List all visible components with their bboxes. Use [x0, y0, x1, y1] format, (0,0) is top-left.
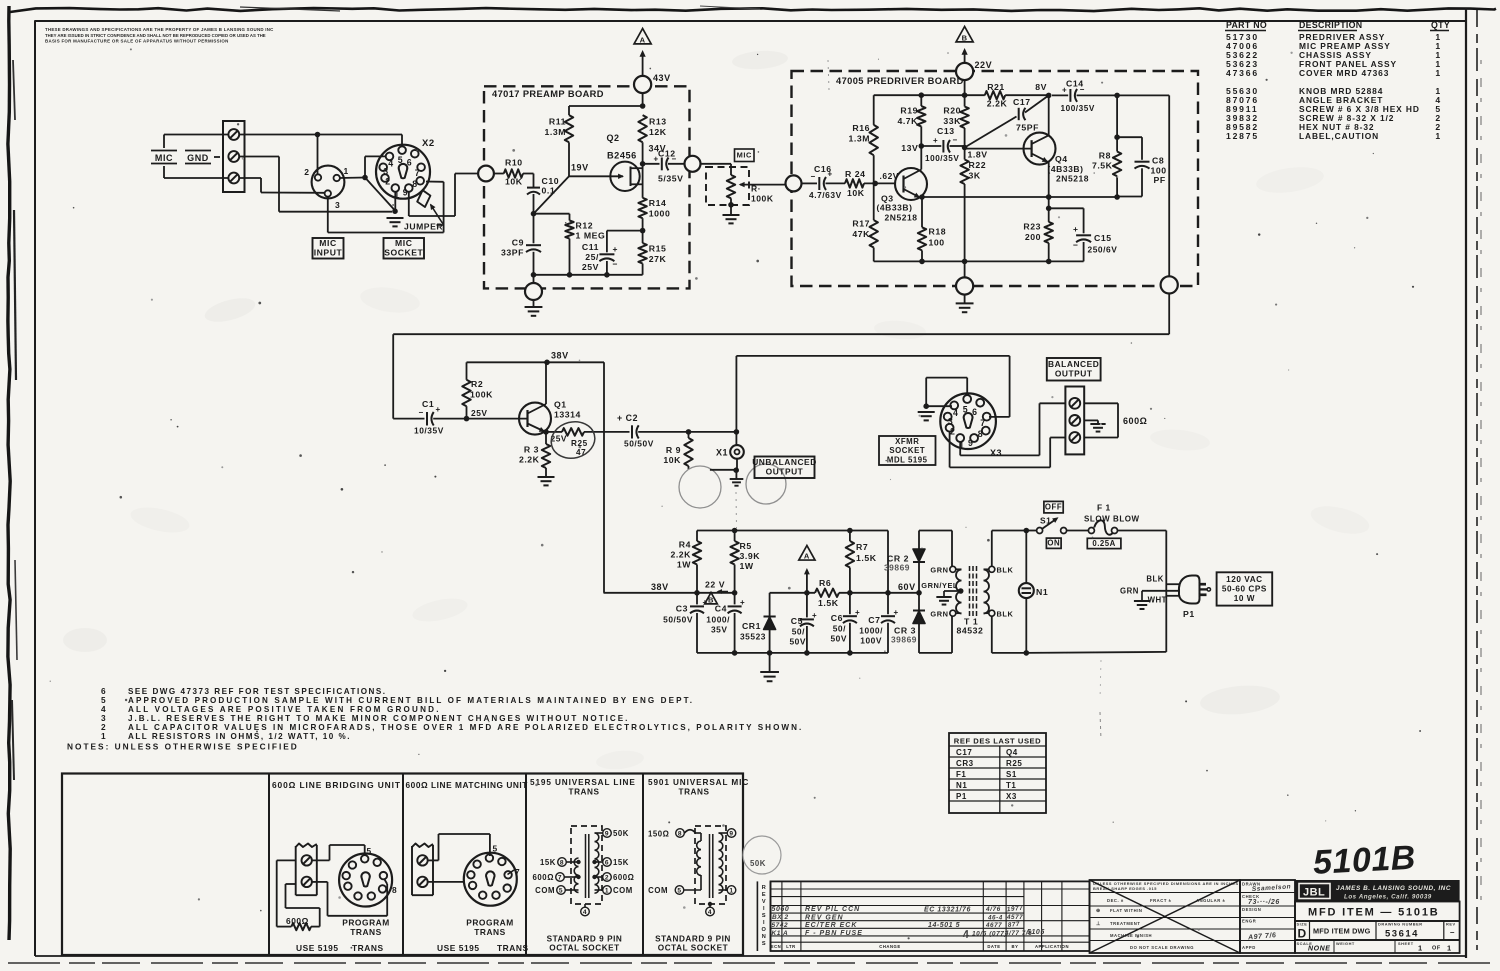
- svg-text:3.9K: 3.9K: [740, 551, 761, 561]
- svg-text:75PF: 75PF: [1016, 123, 1039, 133]
- svg-text:2N5218: 2N5218: [1056, 174, 1089, 184]
- svg-text:R4: R4: [679, 540, 691, 550]
- svg-text:+: +: [613, 244, 619, 254]
- wire GND terminal to ground bus: [239, 156, 279, 158]
- svg-text:R5: R5: [740, 541, 752, 551]
- svg-text:120 VAC: 120 VAC: [1226, 575, 1262, 584]
- svg-text:EC/TER ECK: EC/TER ECK: [805, 922, 857, 929]
- svg-text:5195 UNIVERSAL LINE: 5195 UNIVERSAL LINE: [530, 778, 636, 787]
- svg-text:C15: C15: [1094, 233, 1112, 243]
- svg-text:+: +: [828, 170, 833, 179]
- svg-text:1000: 1000: [649, 209, 671, 219]
- bridging wire screw2 to pin8: [312, 881, 328, 883]
- svg-text:1: 1: [1435, 68, 1440, 78]
- svg-text:A: A: [804, 552, 810, 561]
- capacitor C6 50/50V: [849, 593, 851, 614]
- resistor R19 4.7K: [920, 95, 922, 106]
- capacitor C12 5/35V: [643, 163, 660, 165]
- triangle flag B top: [956, 27, 973, 42]
- svg-text:R: R: [762, 885, 767, 891]
- predriver input terminal circle: [786, 175, 802, 191]
- label GND (input line): [185, 150, 211, 152]
- svg-text:–: –: [1450, 928, 1455, 937]
- svg-text:R13: R13: [649, 117, 667, 127]
- svg-text:33PF: 33PF: [501, 248, 524, 258]
- sheet frame border: [35, 21, 1466, 120]
- svg-text:TRANS: TRANS: [352, 943, 384, 953]
- svg-text:R12: R12: [576, 221, 594, 231]
- wire socket pin9 to preamp input: [408, 192, 410, 216]
- svg-text:JAMES B. LANSING SOUND, INC: JAMES B. LANSING SOUND, INC: [1336, 885, 1451, 892]
- svg-text:(4B33B): (4B33B): [1048, 164, 1084, 174]
- capacitor C7 1000/100V: [887, 531, 889, 615]
- svg-text:50/: 50/: [792, 627, 805, 637]
- svg-text:+: +: [703, 598, 708, 607]
- svg-text:47017 PREAMP BOARD: 47017 PREAMP BOARD: [492, 89, 604, 99]
- svg-text:5: 5: [677, 887, 681, 894]
- svg-text:46-4: 46-4: [987, 915, 1003, 922]
- svg-text:39869: 39869: [891, 635, 917, 645]
- capacitor C8 100PF: [1117, 136, 1142, 138]
- svg-text:250/6V: 250/6V: [1088, 245, 1118, 255]
- svg-text:10 W: 10 W: [1234, 594, 1255, 603]
- svg-text:REV PIL CCN: REV PIL CCN: [805, 906, 860, 913]
- capacitor C11 25/25V: [607, 230, 643, 232]
- svg-text:50V: 50V: [789, 637, 806, 647]
- preamp ground rail: [534, 274, 643, 276]
- svg-text:R21: R21: [987, 82, 1005, 92]
- 5195 terminal 4 shield: [584, 904, 586, 907]
- wire 43V to triangle A: [642, 52, 644, 76]
- svg-text:⊥: ⊥: [1096, 921, 1101, 927]
- svg-text:⊕: ⊕: [1096, 908, 1101, 914]
- X3 pin5 to ground: [966, 378, 968, 396]
- svg-text:E: E: [762, 892, 766, 898]
- plug P1: [1179, 576, 1200, 604]
- wire XLR pin3 loop to socket pin8: [327, 197, 329, 233]
- svg-text:NOTES: UNLESS OTHERWISE SPECI: NOTES: UNLESS OTHERWISE SPECIFIED: [67, 742, 299, 752]
- svg-text:12875: 12875: [1226, 131, 1259, 141]
- 5195 transformer dashed shield: [571, 826, 602, 904]
- predriver board dashed outline 47005: [792, 71, 1199, 286]
- ground junction mic shield: [392, 208, 398, 214]
- svg-text:MIC: MIC: [737, 151, 752, 160]
- svg-text:C11: C11: [582, 242, 599, 252]
- svg-text:600Ω: 600Ω: [286, 916, 309, 926]
- svg-text:1: 1: [1447, 944, 1452, 953]
- wire X1 node to XFMR socket pin7: [735, 356, 737, 432]
- svg-text:7: 7: [415, 168, 420, 178]
- svg-text:TRANS: TRANS: [474, 927, 506, 937]
- photocopy smudges: [202, 294, 257, 327]
- svg-text:Q2: Q2: [606, 133, 619, 143]
- 5195 terminal 6: [595, 861, 603, 863]
- label box XFMR SOCKET MDL 5195: [879, 436, 936, 465]
- svg-text:C10: C10: [542, 176, 560, 186]
- svg-text:100V: 100V: [860, 636, 882, 646]
- resistor R11 1.3M: [568, 142, 570, 176]
- svg-text:R10: R10: [505, 158, 523, 168]
- bridging 600 ohm resistor loop: [277, 859, 296, 861]
- svg-text:7: 7: [558, 874, 562, 881]
- 5195 left winding: [574, 858, 578, 892]
- svg-text:1: 1: [101, 731, 106, 741]
- svg-text:B: B: [962, 33, 968, 42]
- supply ground symbol: [769, 653, 771, 672]
- resistor R14 1000: [638, 198, 646, 218]
- svg-text:600Ω: 600Ω: [613, 873, 634, 882]
- node 1.8V: [962, 145, 968, 151]
- svg-text:ECN: ECN: [771, 944, 782, 949]
- svg-text:1: 1: [394, 190, 399, 200]
- svg-text:OFF: OFF: [1045, 503, 1062, 512]
- 38V rail to supply: [467, 361, 605, 363]
- label box ON: [1046, 538, 1061, 548]
- svg-text:4: 4: [953, 408, 958, 418]
- svg-text:R23: R23: [1023, 222, 1041, 232]
- 5901 right winding: [719, 833, 723, 893]
- ref des last used table: [949, 733, 1046, 813]
- svg-text:50/: 50/: [833, 624, 846, 634]
- 5901 terminal 1: [719, 889, 728, 891]
- drawing number row: [1295, 921, 1460, 940]
- rectifier CR3 39869: [918, 593, 920, 611]
- capacitor C14 100/35V: [1052, 94, 1068, 96]
- svg-text:I: I: [763, 906, 765, 912]
- svg-text:R25: R25: [1006, 759, 1022, 768]
- svg-text:−: −: [419, 408, 424, 417]
- svg-text:C4: C4: [715, 604, 727, 614]
- svg-text:84532: 84532: [957, 626, 984, 636]
- svg-text:R11: R11: [549, 117, 566, 127]
- svg-text:10/6 (077): 10/6 (077): [972, 931, 1007, 938]
- transistor Q3 2N5218: [895, 168, 927, 200]
- svg-text:C7: C7: [868, 615, 880, 625]
- svg-text:BLK: BLK: [997, 610, 1014, 619]
- svg-text:C5: C5: [791, 616, 803, 626]
- svg-text:R16: R16: [852, 123, 870, 133]
- svg-text:GND: GND: [187, 153, 209, 163]
- svg-text:JBL: JBL: [1303, 887, 1325, 899]
- svg-text:10K: 10K: [663, 455, 681, 465]
- svg-text:NONE: NONE: [1308, 946, 1330, 953]
- svg-text:X3: X3: [990, 448, 1002, 458]
- svg-text:200: 200: [1025, 232, 1041, 242]
- svg-text:22 V: 22 V: [705, 580, 725, 590]
- svg-text:600Ω LINE MATCHING UNIT: 600Ω LINE MATCHING UNIT: [406, 780, 528, 790]
- svg-text:R20: R20: [943, 106, 961, 116]
- svg-text:STANDARD 9 PIN: STANDARD 9 PIN: [547, 935, 623, 944]
- wire X3 pin1 to balanced terminal 1: [959, 442, 961, 456]
- svg-text:13V: 13V: [901, 143, 918, 153]
- predriver bottom rail: [874, 260, 1084, 262]
- preamp board dashed outline 47017: [484, 86, 690, 288]
- 5195 terminal 8: [567, 861, 579, 863]
- node R14/R15/C11: [640, 228, 646, 234]
- svg-text:T1: T1: [1006, 781, 1016, 790]
- svg-text:C9: C9: [512, 238, 524, 248]
- label box MIC INPUT: [313, 238, 344, 259]
- label box BALANCED OUTPUT: [1047, 358, 1101, 381]
- predriver ground symbol: [964, 295, 966, 304]
- resistor R17 47K: [873, 183, 875, 220]
- svg-text:TRANS: TRANS: [679, 788, 710, 797]
- svg-text:R2: R2: [471, 379, 483, 389]
- 5901 terminal 9: [719, 832, 728, 834]
- svg-text:BLK: BLK: [1146, 575, 1164, 584]
- resistor R9 10K: [688, 432, 690, 438]
- capacitor C5 50/50V: [806, 593, 808, 618]
- svg-text:60V: 60V: [898, 582, 916, 592]
- svg-text:I: I: [763, 920, 765, 926]
- svg-text:V: V: [762, 899, 766, 905]
- svg-text:38V: 38V: [651, 582, 669, 592]
- svg-text:8V: 8V: [1035, 82, 1047, 92]
- svg-text:8: 8: [560, 859, 564, 866]
- 5901 terminal 5 COM: [684, 889, 701, 891]
- revision application section: [1041, 881, 1043, 951]
- svg-text:ALL RESISTORS IN OHMS, 1/2 WAT: ALL RESISTORS IN OHMS, 1/2 WATT, 10 %.: [128, 732, 351, 741]
- svg-text:7: 7: [515, 867, 520, 877]
- rectifier CR2 39869: [919, 530, 952, 532]
- 600 ohm load bracket: [1084, 402, 1118, 404]
- svg-text:S1: S1: [1006, 770, 1017, 779]
- svg-text:CR3: CR3: [956, 759, 974, 768]
- svg-text:+: +: [1062, 86, 1067, 95]
- svg-text:4577: 4577: [1006, 914, 1023, 921]
- svg-text:K1 A: K1 A: [772, 930, 789, 937]
- svg-text:C8: C8: [1152, 156, 1164, 166]
- preamp output terminal circle: [685, 156, 701, 172]
- 5901 transformer dashed shield: [695, 826, 726, 904]
- resistor R8 7.5K: [1116, 95, 1118, 137]
- svg-text:R14: R14: [649, 198, 667, 208]
- revision table grid: [771, 881, 1090, 951]
- svg-text:9: 9: [968, 438, 973, 448]
- svg-text:JUMPER: JUMPER: [404, 222, 443, 232]
- svg-text:TRANS: TRANS: [350, 927, 382, 937]
- svg-text:2: 2: [304, 167, 309, 177]
- X1 ground symbol: [730, 478, 744, 480]
- capacitor C15 250/6V: [1049, 207, 1084, 209]
- svg-text:THESE DRAWINGS AND SPECIFICATI: THESE DRAWINGS AND SPECIFICATIONS ARE TH…: [45, 27, 274, 32]
- svg-text:2.2K: 2.2K: [670, 550, 691, 560]
- white-out balloon left: [679, 466, 721, 508]
- svg-text:INPUT: INPUT: [314, 248, 343, 258]
- svg-text:1.8V: 1.8V: [968, 150, 988, 160]
- svg-text:7: 7: [980, 418, 985, 428]
- svg-text:1000/: 1000/: [859, 626, 883, 636]
- label box 120 VAC 50-60 CPS 10W: [1217, 572, 1273, 605]
- svg-text:6: 6: [605, 859, 609, 866]
- svg-text:5101B: 5101B: [1312, 839, 1417, 882]
- jack X1 unbalanced output: [734, 429, 740, 435]
- tolerance box: [1090, 880, 1241, 953]
- svg-text:PF: PF: [1154, 175, 1166, 185]
- svg-text:4677: 4677: [985, 922, 1002, 929]
- resistor R3 2.2K: [545, 432, 547, 444]
- svg-text:R·: R·: [751, 184, 761, 194]
- 5195 terminal 7: [565, 876, 579, 878]
- revisions vertical strip: [756, 881, 758, 951]
- svg-text:150Ω: 150Ω: [648, 830, 669, 839]
- svg-text:8: 8: [678, 830, 682, 837]
- svg-text:REV GEN: REV GEN: [805, 915, 844, 922]
- svg-text:(4B33B): (4B33B): [877, 203, 913, 213]
- svg-text:APPLICATION: APPLICATION: [1035, 944, 1069, 949]
- label box OFF: [1044, 501, 1063, 513]
- wire terminal3 to XLR pin3: [239, 177, 261, 179]
- node 8V: [1046, 93, 1052, 99]
- svg-text:F 1: F 1: [1097, 503, 1111, 513]
- svg-text:−: −: [613, 259, 619, 269]
- svg-text:35523: 35523: [740, 632, 766, 642]
- svg-text:1: 1: [344, 166, 349, 176]
- screw terminal 3: [228, 173, 239, 184]
- drawn/check/design block: [1240, 880, 1295, 953]
- capacitor C10 0.1: [533, 174, 535, 188]
- 5195 terminal 2: [595, 876, 603, 878]
- wire R9 to X1 ground: [710, 469, 736, 471]
- svg-text:5: 5: [963, 404, 968, 414]
- svg-text:5060: 5060: [772, 906, 790, 913]
- svg-text:35V: 35V: [711, 625, 728, 635]
- svg-text:MDL 5195: MDL 5195: [887, 455, 928, 464]
- svg-text:PROGRAM: PROGRAM: [466, 918, 514, 928]
- svg-text:TRANS: TRANS: [497, 943, 529, 953]
- svg-text:10K: 10K: [505, 177, 523, 187]
- svg-text:5: 5: [493, 844, 498, 854]
- svg-text:SOCKET: SOCKET: [889, 446, 925, 455]
- 5195 terminal 5: [566, 889, 579, 891]
- zener CR1 35523: [769, 593, 771, 616]
- svg-text:PART NO: PART NO: [1226, 20, 1267, 30]
- svg-text:27K: 27K: [649, 254, 667, 264]
- svg-text:OF: OF: [1432, 946, 1441, 952]
- svg-text:25/: 25/: [585, 252, 599, 262]
- wire XLR pin1 to socket pin4 and ground: [340, 177, 365, 180]
- bridging wire screw1 to pin5: [312, 859, 330, 861]
- svg-text:A: A: [640, 35, 646, 44]
- svg-text:8: 8: [978, 429, 983, 439]
- label MIC (input line): [151, 150, 177, 152]
- svg-text:OUTPUT: OUTPUT: [1055, 368, 1093, 378]
- svg-text:73-··-/26: 73-··-/26: [1248, 899, 1280, 906]
- svg-text:2: 2: [605, 874, 609, 881]
- svg-text:FLAT WITHIN: FLAT WITHIN: [1110, 908, 1143, 913]
- plug ground: [1141, 591, 1143, 601]
- svg-text:−: −: [1080, 85, 1085, 94]
- svg-text:−: −: [672, 155, 677, 164]
- svg-text:X3: X3: [1006, 792, 1017, 801]
- svg-text:−: −: [953, 136, 958, 145]
- svg-text:4/76: 4/76: [985, 906, 1001, 913]
- svg-text:THEY ARE ISSUED IN STRICT CONF: THEY ARE ISSUED IN STRICT CONFIDENCE AND…: [45, 33, 266, 38]
- svg-text:D: D: [1298, 927, 1307, 941]
- svg-text:1.5K: 1.5K: [818, 598, 839, 608]
- T1 center tap GRN/YEL to ground: [958, 588, 964, 594]
- sheet frame bottom line: [35, 955, 1466, 957]
- svg-text:PROGRAM: PROGRAM: [342, 918, 390, 928]
- svg-text:N: N: [762, 934, 767, 940]
- svg-text:1: 1: [729, 887, 733, 894]
- svg-text:DESCRIPTION: DESCRIPTION: [1299, 20, 1362, 30]
- svg-text:REV: REV: [1446, 922, 1456, 927]
- svg-text:C1: C1: [422, 399, 434, 409]
- svg-text:N1: N1: [1036, 587, 1048, 597]
- FET Q2 B2456: [610, 162, 639, 191]
- plug P1 wires: [1166, 583, 1179, 585]
- screw terminal 2: [228, 151, 239, 162]
- svg-text:DEC. ±: DEC. ±: [1107, 898, 1124, 903]
- capacitor C4 1000/35V: [734, 593, 736, 605]
- svg-text:15K: 15K: [540, 858, 556, 867]
- svg-text:1.3M: 1.3M: [544, 127, 566, 137]
- svg-text:2.2K: 2.2K: [987, 99, 1008, 109]
- XLR connector mic input: [312, 166, 345, 199]
- svg-text:B: B: [708, 596, 714, 605]
- svg-text:22V: 22V: [975, 60, 993, 70]
- svg-text:USE 5195: USE 5195: [437, 943, 480, 953]
- svg-text:MFD ITEM — 5101B: MFD ITEM — 5101B: [1308, 907, 1439, 919]
- svg-text:1: 1: [1435, 131, 1440, 141]
- svg-text:100/35V: 100/35V: [925, 154, 959, 163]
- svg-text:+: +: [1073, 224, 1079, 234]
- svg-text:P1: P1: [956, 792, 967, 801]
- resistor R21 2.2K: [985, 91, 1005, 99]
- svg-text:C17: C17: [956, 748, 972, 757]
- svg-text:Q1: Q1: [554, 400, 567, 410]
- svg-text:+: +: [855, 608, 860, 617]
- bridging program trans socket: [339, 854, 392, 907]
- resistor R20 33K: [960, 107, 968, 129]
- svg-text:BASIS FOR MANUFACTURE OR SALE: BASIS FOR MANUFACTURE OR SALE OF APPARAT…: [45, 39, 229, 44]
- preamp ground terminal circle: [533, 275, 535, 283]
- svg-text:−: −: [1073, 240, 1079, 250]
- wire X3 pin2 to balanced terminal 3: [949, 431, 951, 467]
- neon lamp N1: [1024, 528, 1030, 534]
- svg-text:R6: R6: [819, 578, 831, 588]
- predriver ground terminal circle: [964, 261, 966, 277]
- svg-text:BY: BY: [1012, 944, 1019, 949]
- label box MIC small: [735, 149, 755, 162]
- capacitor C9 33PF: [533, 214, 535, 244]
- svg-text:S: S: [762, 913, 766, 919]
- svg-text:R7: R7: [856, 542, 868, 552]
- application table outline: [62, 774, 743, 956]
- svg-text:CHANGE: CHANGE: [879, 944, 900, 949]
- svg-text:S1: S1: [1040, 516, 1051, 526]
- svg-text:1 MEG: 1 MEG: [576, 231, 606, 241]
- svg-text:−: −: [811, 172, 816, 181]
- resistor R15 27K: [642, 231, 644, 244]
- svg-text:GRN: GRN: [1120, 587, 1139, 596]
- svg-text:8: 8: [412, 179, 417, 189]
- node .62V base: [872, 181, 878, 187]
- svg-text:47005 PREDRIVER BOARD: 47005 PREDRIVER BOARD: [836, 76, 964, 86]
- T1 primary to switch loop: [991, 531, 993, 567]
- node R2/base 25V: [464, 416, 470, 422]
- svg-text:TREATMENT: TREATMENT: [1110, 921, 1140, 926]
- svg-text:R17: R17: [852, 219, 870, 229]
- svg-text:50/50V: 50/50V: [624, 439, 654, 449]
- matching program trans socket: [464, 853, 517, 906]
- svg-text:33K: 33K: [943, 116, 961, 126]
- svg-text:COM: COM: [648, 886, 668, 895]
- terminal strip TB1 mic input: [223, 121, 245, 192]
- svg-text:BX 2: BX 2: [772, 914, 789, 921]
- svg-text:APPROVED PRODUCTION SAMPLE WIT: APPROVED PRODUCTION SAMPLE WITH CURRENT …: [128, 696, 694, 705]
